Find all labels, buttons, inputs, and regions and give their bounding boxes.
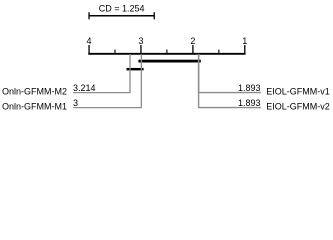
svg-text:2: 2 xyxy=(190,36,195,46)
svg-text:EIOL-GFMM-v1: EIOL-GFMM-v1 xyxy=(266,86,330,96)
svg-text:1.893: 1.893 xyxy=(238,98,261,108)
svg-text:4: 4 xyxy=(87,36,92,46)
svg-text:3: 3 xyxy=(73,98,78,108)
svg-text:Onln-GFMM-M2: Onln-GFMM-M2 xyxy=(2,86,67,96)
svg-text:Onln-GFMM-M1: Onln-GFMM-M1 xyxy=(2,102,67,112)
svg-text:CD = 1.254: CD = 1.254 xyxy=(99,3,145,13)
svg-text:1.893: 1.893 xyxy=(238,83,261,93)
svg-text:3: 3 xyxy=(138,36,143,46)
svg-text:EIOL-GFMM-v2: EIOL-GFMM-v2 xyxy=(266,102,330,112)
svg-text:1: 1 xyxy=(242,36,247,46)
svg-text:3.214: 3.214 xyxy=(73,83,96,93)
